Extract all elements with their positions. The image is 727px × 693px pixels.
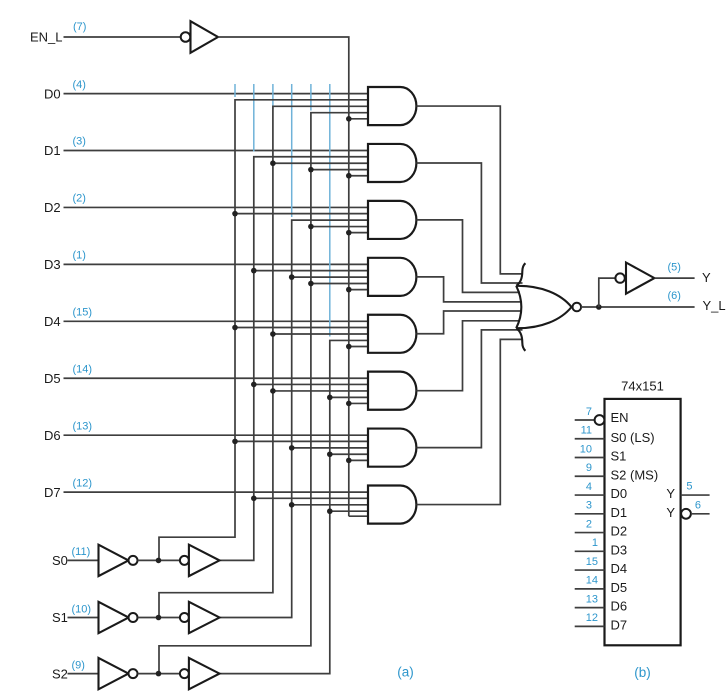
figure label (a) <box>397 665 414 680</box>
pin number 7 <box>586 406 592 418</box>
pin number 12 <box>586 612 598 624</box>
pin number 2 <box>586 518 592 530</box>
inverter U14 (S1 complement) <box>99 602 138 633</box>
buffer U13 (S0 true, input bubble) <box>180 545 220 576</box>
svg-text:D7: D7 <box>44 485 61 500</box>
node S2_L junction <box>156 671 162 677</box>
svg-text:S0: S0 <box>52 553 68 568</box>
svg-text:(3): (3) <box>73 136 86 148</box>
pin number 3 <box>586 500 592 512</box>
inverter U11 (Y output, input bubble) <box>615 263 654 294</box>
pin 12 stub <box>575 625 605 627</box>
svg-text:S1: S1 <box>52 610 68 625</box>
svg-text:D0: D0 <box>611 486 628 501</box>
node EN_L input label <box>30 30 63 45</box>
pin number 9 <box>586 462 592 474</box>
svg-text:D5: D5 <box>611 580 628 595</box>
junction dots on EN vertical <box>346 116 352 463</box>
svg-text:EN_L: EN_L <box>30 30 63 45</box>
svg-text:D3: D3 <box>611 542 628 557</box>
svg-text:Y_L: Y_L <box>703 298 726 313</box>
buffer U15 (S1 true, input bubble) <box>180 602 220 633</box>
svg-text:S1: S1 <box>611 449 627 464</box>
svg-text:13: 13 <box>586 593 598 605</box>
pin 14 stub <box>575 588 605 590</box>
AND gate U6 (D4 term) <box>368 315 416 353</box>
wire D2 to AND gate <box>64 206 369 208</box>
svg-text:D7: D7 <box>611 617 628 632</box>
wire D6 to AND gate <box>64 434 369 436</box>
node D3 input label <box>44 257 61 272</box>
wire D5 to AND gate <box>64 377 369 379</box>
symbol pin label S1 <box>611 449 627 464</box>
svg-text:(12): (12) <box>73 477 93 489</box>
svg-text:10: 10 <box>580 443 592 455</box>
svg-text:D1: D1 <box>44 143 61 158</box>
wire net S1_L vertical and top elbow <box>159 106 368 617</box>
wire AND gate 4 output to NOR input <box>416 311 522 334</box>
wire AND gate 3 output to NOR input <box>416 277 522 302</box>
pin 1 stub <box>575 550 605 552</box>
wire EN_L to inverter U1 <box>64 36 181 38</box>
symbol pin label D3 <box>611 542 628 557</box>
AND gate U4 (D2 term) <box>368 201 416 239</box>
74x151 symbol title <box>621 378 664 393</box>
wire AND gate 1 output to NOR input <box>416 163 522 283</box>
inverter U1 (EN_L buffer, input bubble) <box>181 21 218 53</box>
pin 2 stub <box>575 532 605 534</box>
wire AND gate 0 output to NOR input <box>416 106 522 274</box>
symbol pin label D6 <box>611 599 628 614</box>
junction dots on net S2_L <box>308 167 314 286</box>
node D7 input label <box>44 485 61 500</box>
pin 10 stub <box>575 457 605 459</box>
wire AND gate 6 output to NOR input <box>416 330 522 448</box>
pin number (9) <box>72 659 85 671</box>
symbol pin label S0 (LS) <box>611 430 655 445</box>
svg-text:(15): (15) <box>73 307 93 319</box>
NOR gate U10 (8-input) <box>516 263 581 351</box>
wire AND gate 7 output to NOR input <box>416 339 522 504</box>
node Y_L output label <box>703 298 726 313</box>
node D0 input label <box>44 86 61 101</box>
pin number 15 <box>586 556 598 568</box>
wire net S1 branches to AND gates <box>292 277 368 505</box>
svg-text:12: 12 <box>586 612 598 624</box>
node S2 input label <box>52 666 68 681</box>
svg-text:D1: D1 <box>611 505 628 520</box>
symbol pin label D2 <box>611 524 628 539</box>
AND gate U5 (D3 term) <box>368 258 416 296</box>
wire S2 input <box>68 673 99 675</box>
wire S0 inverter output to buffer <box>138 559 180 561</box>
AND gate U8 (D6 term) <box>368 429 416 467</box>
symbol pin label D4 <box>611 561 628 576</box>
wire junction up to inverter U11 <box>599 278 616 307</box>
wire net S0_L branches to AND gates <box>235 214 368 442</box>
wire D3 to AND gate <box>64 263 369 265</box>
svg-text:1: 1 <box>592 537 598 549</box>
svg-text:D2: D2 <box>611 524 628 539</box>
symbol pin label D5 <box>611 580 628 595</box>
pin number 10 <box>580 443 592 455</box>
svg-text:D4: D4 <box>44 314 61 329</box>
svg-text:14: 14 <box>586 575 598 587</box>
symbol pin label EN <box>611 410 629 425</box>
svg-text:D3: D3 <box>44 257 61 272</box>
svg-text:7: 7 <box>586 406 592 418</box>
wire net S1_L branches to AND gates <box>273 163 368 391</box>
wire net S2_L vertical and top elbow <box>159 113 368 674</box>
wire net S2 vertical and top elbow <box>220 340 369 673</box>
svg-text:S2 (MS): S2 (MS) <box>611 467 659 482</box>
svg-text:S0 (LS): S0 (LS) <box>611 430 655 445</box>
pin number (15) <box>73 307 93 319</box>
svg-text:(14): (14) <box>73 363 93 375</box>
wire net S1 vertical and top elbow <box>220 220 369 617</box>
wire D4 to AND gate <box>64 320 369 322</box>
AND gate U9 (D7 term) <box>368 486 416 524</box>
symbol pin label D0 <box>611 486 628 501</box>
node D5 input label <box>44 371 61 386</box>
junction dots on net S0_L <box>232 211 238 444</box>
pin number (1) <box>73 250 86 262</box>
wire S0 input <box>68 559 99 561</box>
pin number (14) <box>73 363 93 375</box>
pin number 6 <box>695 499 701 511</box>
svg-text:(6): (6) <box>668 290 681 302</box>
svg-text:(7): (7) <box>73 21 86 33</box>
svg-text:(13): (13) <box>73 420 93 432</box>
svg-text:(b): (b) <box>634 665 651 680</box>
pin 3 stub <box>575 513 605 515</box>
node D2 input label <box>44 200 61 215</box>
figure label (b) <box>634 665 651 680</box>
pin 9 stub <box>575 475 605 477</box>
node S1 input label <box>52 610 68 625</box>
pin 7 EN stub with bubble <box>575 415 605 425</box>
node S0 input label <box>52 553 68 568</box>
junction dots on net S0 <box>251 268 257 501</box>
wire AND gate 5 output to NOR input <box>416 321 520 391</box>
wire S1 inverter output to buffer <box>138 617 180 619</box>
svg-text:2: 2 <box>586 518 592 530</box>
svg-text:Y: Y <box>702 270 711 285</box>
svg-text:(10): (10) <box>72 603 92 615</box>
wire net S0 branches to AND gates <box>254 271 368 499</box>
net S2 highlighted vertical (blue) <box>329 84 331 337</box>
pin number (6) <box>668 290 681 302</box>
svg-text:5: 5 <box>686 481 692 493</box>
svg-text:EN: EN <box>611 410 629 425</box>
pin number 11 <box>581 425 592 437</box>
wire D7 to AND gate <box>64 491 369 493</box>
pin number (10) <box>72 603 92 615</box>
node D4 input label <box>44 314 61 329</box>
svg-text:(9): (9) <box>72 659 85 671</box>
wire D0 to AND gate <box>64 93 369 95</box>
wire net S2_L branches to AND gates <box>311 170 368 284</box>
pin number (3) <box>73 136 86 148</box>
pin number 5 <box>686 481 692 493</box>
svg-text:(11): (11) <box>72 546 91 558</box>
junction dots on net S1_L <box>270 160 276 393</box>
pin number (13) <box>73 420 93 432</box>
svg-text:D0: D0 <box>44 86 61 101</box>
pin 13 stub <box>575 607 605 609</box>
node S1_L junction <box>156 615 162 621</box>
inverter U16 (S2 complement) <box>99 658 138 689</box>
junction dots on net S1 <box>289 274 295 507</box>
pin 4 stub <box>575 494 605 496</box>
svg-text:D4: D4 <box>611 561 628 576</box>
pin number 13 <box>586 593 598 605</box>
symbol pin label D7 <box>611 617 628 632</box>
svg-text:(5): (5) <box>668 262 681 274</box>
svg-text:4: 4 <box>586 481 592 493</box>
pin number (12) <box>73 477 93 489</box>
svg-text:(1): (1) <box>73 250 86 262</box>
svg-text:(a): (a) <box>397 665 414 680</box>
wire D1 to AND gate <box>64 150 369 152</box>
net S0_L highlighted vertical (blue) <box>234 84 236 97</box>
svg-text:D5: D5 <box>44 371 61 386</box>
pin number (7) <box>73 21 86 33</box>
svg-text:3: 3 <box>586 500 592 512</box>
pin 11 stub <box>575 438 605 440</box>
net S0 highlighted vertical (blue) <box>253 84 255 152</box>
svg-text:Y: Y <box>666 486 675 501</box>
wire EN net: inverter output right then down to AND gates <box>218 37 368 516</box>
svg-text:11: 11 <box>581 425 592 437</box>
svg-text:(2): (2) <box>73 193 86 205</box>
wire S1 input <box>68 617 99 619</box>
wire AND gate 2 output to NOR input <box>416 220 520 292</box>
pin number 14 <box>586 575 598 587</box>
svg-text:74x151: 74x151 <box>621 378 664 393</box>
svg-text:D6: D6 <box>611 599 628 614</box>
svg-text:D6: D6 <box>44 428 61 443</box>
pin number 1 <box>592 537 598 549</box>
inverter U12 (S0 complement) <box>99 545 138 576</box>
svg-text:9: 9 <box>586 462 592 474</box>
pin 15 stub <box>575 569 605 571</box>
pin 5 Y stub <box>681 494 710 496</box>
pin number 4 <box>586 481 592 493</box>
74x151 symbol body <box>605 399 681 645</box>
pin number (2) <box>73 193 86 205</box>
junction dots on net S2 <box>327 395 333 514</box>
net S1 highlighted vertical (blue) <box>291 84 293 217</box>
wire net S0 vertical and top elbow <box>220 157 369 561</box>
wire Y output <box>654 277 694 279</box>
svg-text:6: 6 <box>695 499 701 511</box>
wire Y_L net from NOR output <box>581 306 695 308</box>
AND gate U3 (D1 term) <box>368 144 416 182</box>
symbol pin label Y (pin 5) <box>666 486 675 501</box>
node Y_L junction <box>596 304 602 310</box>
svg-text:S2: S2 <box>52 666 68 681</box>
wire net S2 branches to AND gates <box>330 397 368 511</box>
node Y output label <box>702 270 711 285</box>
AND gate U7 (D5 term) <box>368 372 416 410</box>
wire EN branches to AND gates <box>349 119 368 461</box>
AND gate U2 (D0 term) <box>368 87 416 125</box>
wire S2 inverter output to buffer <box>138 673 180 675</box>
node S0_L junction <box>156 558 162 564</box>
svg-text:(4): (4) <box>73 79 86 91</box>
pin number (4) <box>73 79 86 91</box>
svg-text:D2: D2 <box>44 200 61 215</box>
pin 6 Y stub with bubble <box>681 509 710 519</box>
node D1 input label <box>44 143 61 158</box>
symbol pin label D1 <box>611 505 628 520</box>
net S1_L highlighted vertical (blue) <box>272 84 274 109</box>
symbol pin label S2 (MS) <box>611 467 659 482</box>
pin number (11) <box>72 546 91 558</box>
symbol pin label Y (pin 6) <box>666 505 675 520</box>
svg-text:15: 15 <box>586 556 598 568</box>
pin number (5) <box>668 262 681 274</box>
svg-text:Y: Y <box>666 505 675 520</box>
node D6 input label <box>44 428 61 443</box>
net S2_L highlighted vertical (blue) <box>310 84 312 111</box>
wire net S0_L vertical and top elbow <box>159 100 368 561</box>
buffer U17 (S2 true, input bubble) <box>180 658 220 689</box>
